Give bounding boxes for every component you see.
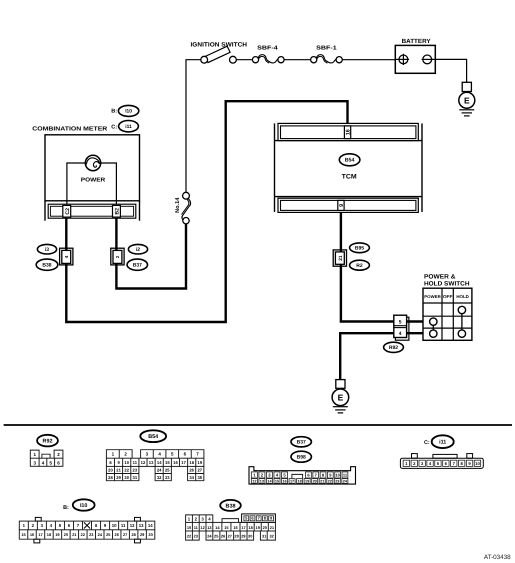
label IGNITION SWITCH [191, 41, 248, 48]
ground E (switch) [332, 380, 349, 413]
svg-text:R2: R2 [356, 263, 363, 269]
wire: TCM pin 9 to R92 pin 5 [341, 212, 394, 321]
svg-text:R92: R92 [43, 439, 53, 445]
svg-text:35: 35 [198, 475, 203, 480]
connector label B54 (TCM) [339, 154, 360, 166]
TCM bottom connector strip (pin 9) [278, 198, 418, 212]
svg-text:POWER: POWER [424, 294, 441, 299]
svg-text:i11: i11 [439, 440, 446, 446]
wire: R92 pin 4 to ground [340, 333, 394, 379]
TCM top connector strip (pin 16) [278, 123, 418, 140]
svg-text:23: 23 [335, 479, 339, 483]
svg-text:21: 21 [320, 479, 324, 483]
svg-text:COMBINATION METER: COMBINATION METER [32, 125, 108, 132]
svg-text:32: 32 [157, 475, 162, 480]
svg-text:17: 17 [181, 460, 186, 465]
svg-text:B54: B54 [148, 434, 158, 440]
connector B: I10 pinout label [63, 499, 94, 511]
svg-text:16: 16 [173, 460, 178, 465]
svg-text:10: 10 [124, 460, 129, 465]
svg-text:13: 13 [260, 479, 264, 483]
label AT-03438 [484, 554, 511, 561]
separator line [4, 424, 512, 426]
svg-text:B38: B38 [42, 263, 51, 269]
svg-text:i3: i3 [45, 247, 49, 253]
svg-text:B38: B38 [226, 503, 236, 509]
connector C: i11 pinout label [424, 435, 454, 448]
svg-text:31: 31 [133, 475, 138, 480]
R92 connector block [394, 315, 409, 340]
svg-text:4: 4 [399, 331, 402, 337]
connector label B37 (inline) [127, 259, 147, 270]
power & hold switch table [423, 288, 472, 340]
TCM unit box [275, 123, 423, 212]
svg-text:B37: B37 [297, 440, 306, 446]
svg-text:10: 10 [112, 523, 117, 528]
svg-text:22: 22 [328, 479, 332, 483]
svg-text:21: 21 [338, 255, 344, 261]
svg-text:16: 16 [346, 129, 352, 135]
connector label C: i11 [111, 121, 138, 132]
connector label R2 [350, 260, 370, 270]
label TCM [342, 174, 357, 181]
svg-text:B98: B98 [297, 455, 306, 461]
svg-text:13: 13 [149, 460, 154, 465]
connector B54 pinout [106, 450, 203, 481]
svg-text:27: 27 [123, 532, 127, 537]
svg-text:21: 21 [116, 468, 121, 473]
svg-text:B95: B95 [355, 246, 364, 252]
wire: SBF-1 to battery [342, 59, 395, 61]
svg-text:B:: B: [111, 108, 117, 114]
svg-text:14: 14 [148, 523, 153, 528]
svg-text:9: 9 [339, 204, 345, 207]
svg-text:C2: C2 [65, 208, 71, 215]
connector label R92 (inline) [384, 342, 404, 352]
wire: R92 pin 4 to switch [407, 332, 424, 334]
svg-text:19: 19 [198, 460, 203, 465]
wire: meter B2 to fuse No.14 [116, 218, 186, 288]
svg-text:10: 10 [475, 461, 480, 466]
svg-text:E: E [338, 392, 344, 402]
label POWER & HOLD SWITCH [424, 273, 470, 287]
svg-text:17: 17 [290, 479, 294, 483]
svg-text:i11: i11 [125, 124, 132, 130]
svg-text:E: E [464, 95, 470, 105]
svg-text:20: 20 [263, 525, 267, 530]
svg-text:20: 20 [64, 532, 68, 537]
wire: SBF-4 to SBF-1 [284, 59, 311, 61]
svg-text:11: 11 [133, 460, 138, 465]
label POWER [81, 177, 106, 183]
svg-text:AT-03438: AT-03438 [484, 554, 511, 561]
svg-text:26: 26 [189, 468, 194, 473]
inline connector i2/B37 pin 2 [111, 248, 124, 265]
svg-text:SBF-1: SBF-1 [316, 46, 337, 52]
connector label i3 [37, 244, 56, 254]
wire: ignition switch to SBF-4 [236, 59, 252, 61]
wire: battery to ground [435, 59, 466, 82]
wire: R92 pin 5 to switch [407, 320, 424, 322]
svg-text:13: 13 [139, 523, 144, 528]
svg-text:30: 30 [248, 533, 252, 538]
svg-text:33: 33 [165, 475, 170, 480]
label COMBINATION METER [32, 125, 108, 132]
svg-text:5: 5 [399, 319, 402, 325]
svg-text:i2: i2 [136, 247, 140, 253]
svg-text:TCM: TCM [342, 174, 357, 181]
connector label B38 (inline) [36, 259, 58, 270]
label BATTERY [402, 38, 431, 45]
wire from ignition switch down to fuse No.14 [186, 60, 201, 193]
svg-text:14: 14 [157, 460, 162, 465]
svg-text:C:: C: [111, 124, 117, 130]
svg-text:12: 12 [130, 523, 135, 528]
svg-text:29: 29 [116, 475, 121, 480]
svg-text:22: 22 [124, 468, 129, 473]
svg-text:10: 10 [187, 525, 191, 530]
svg-text:R92: R92 [389, 345, 398, 351]
svg-text:C:: C: [424, 440, 430, 446]
fuse SBF-1 [311, 55, 343, 64]
fuse No.14 [182, 192, 191, 224]
fuse SBF-4 [252, 55, 284, 64]
svg-text:30: 30 [148, 532, 152, 537]
svg-text:POWER: POWER [81, 177, 106, 183]
svg-text:27: 27 [198, 468, 203, 473]
svg-text:24: 24 [157, 468, 162, 473]
svg-text:I10: I10 [125, 109, 132, 115]
connector B37 pinout label [291, 437, 311, 447]
svg-text:HOLD SWITCH: HOLD SWITCH [424, 281, 470, 288]
svg-text:HOLD: HOLD [456, 294, 469, 299]
svg-text:16: 16 [282, 479, 286, 483]
label SBF-4 [257, 46, 279, 52]
connector R92 pinout [30, 450, 63, 466]
svg-text:19: 19 [305, 479, 309, 483]
connector B37/B98 pinout [249, 467, 356, 484]
connector label B: I10 [111, 105, 139, 116]
connector label i2 [128, 244, 147, 254]
svg-text:IGNITION SWITCH: IGNITION SWITCH [191, 41, 248, 48]
label No.14 [175, 197, 181, 213]
svg-text:SBF-4: SBF-4 [257, 46, 279, 52]
svg-text:OFF: OFF [443, 294, 453, 299]
connector B98 pinout label [291, 451, 311, 462]
svg-text:30: 30 [124, 475, 129, 480]
connector B: I10 pinout [19, 517, 155, 543]
label SBF-1 [316, 46, 337, 52]
svg-text:12: 12 [141, 460, 146, 465]
svg-text:20: 20 [313, 479, 317, 483]
svg-text:34: 34 [189, 475, 194, 480]
svg-text:B54: B54 [345, 158, 355, 164]
svg-text:27: 27 [228, 533, 232, 538]
svg-text:10: 10 [335, 472, 340, 477]
svg-text:12: 12 [252, 479, 256, 483]
wire: meter C2 to TCM pin 16 [66, 101, 347, 322]
connector R92 pinout label [37, 435, 58, 447]
inline connector i3/B38 pin 4 [60, 248, 73, 265]
svg-text:18: 18 [297, 479, 301, 483]
svg-text:No.14: No.14 [175, 197, 181, 213]
connector B38 pinout [186, 514, 276, 540]
meter connector strip [48, 204, 136, 218]
svg-text:20: 20 [108, 468, 113, 473]
svg-text:POWER &: POWER & [424, 273, 456, 280]
inline connector B95/R2 pin 21 [333, 250, 346, 266]
svg-text:B37: B37 [133, 263, 142, 269]
svg-text:I10: I10 [80, 503, 88, 509]
svg-text:15: 15 [165, 460, 170, 465]
connector C: i11 pinout [400, 454, 483, 469]
ignition switch [201, 46, 237, 63]
svg-text:B:: B: [63, 505, 69, 511]
connector label B95 [350, 243, 370, 253]
battery [395, 45, 435, 73]
svg-text:25: 25 [165, 468, 170, 473]
svg-text:28: 28 [108, 475, 113, 480]
svg-text:B2: B2 [114, 208, 120, 215]
lamp POWER (meter illumination) [67, 155, 117, 204]
svg-text:18: 18 [189, 460, 194, 465]
connector B38 pinout label [220, 500, 241, 511]
svg-text:11: 11 [121, 523, 126, 528]
ground E (battery) [459, 82, 475, 116]
svg-text:15: 15 [275, 479, 279, 483]
svg-text:BATTERY: BATTERY [402, 38, 431, 45]
combination meter box [45, 135, 140, 221]
connector B54 pinout label [140, 430, 166, 442]
svg-text:23: 23 [133, 468, 138, 473]
svg-text:17: 17 [38, 532, 42, 537]
svg-text:17: 17 [241, 525, 245, 530]
